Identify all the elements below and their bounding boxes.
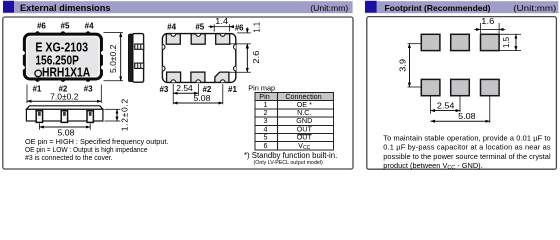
castellation bump #4 top [86,31,91,36]
svg-text:E XG-2103: E XG-2103 [35,41,88,55]
svg-text:To maintain stable operation,: To maintain stable operation, provide a … [383,133,550,142]
svg-text:(Unit:mm): (Unit:mm) [310,4,348,13]
terminal 1 [36,111,42,123]
dim 5.08 bottomview line [173,102,223,104]
svg-text:2.54: 2.54 [437,100,455,110]
header bar: Footprint [365,1,558,13]
footprint pad F [481,79,500,95]
terminal 2 [61,111,67,123]
dim 1.1 line outside arrows [246,27,248,33]
svg-text:*) Standby function built-in.: *) Standby function built-in. [244,151,337,160]
notch top #6 [220,34,225,36]
header navy square right [365,1,377,13]
footprint pad B [451,34,470,50]
pad #5 [191,34,205,44]
svg-text:#4: #4 [85,22,94,31]
svg-text:#3 is connected to the cover.: #3 is connected to the cover. [25,153,113,162]
dim 5.0 line [120,33,122,81]
dim 1.1 ext top [237,32,251,34]
table row lines [255,101,334,142]
svg-text:HRH1X1A: HRH1X1A [42,66,90,80]
castellation bump #3 bottom [86,77,91,82]
header bar: External dimensions [3,1,353,13]
svg-text:#6: #6 [37,22,46,31]
svg-text:6: 6 [264,141,268,150]
fp dim 3.9 ext [408,43,422,45]
footprint pad C [481,34,500,50]
side body outline [133,34,144,83]
pad #6 [216,34,230,44]
svg-text:1.1: 1.1 [252,21,262,32]
dim 1.4 ticks [213,24,215,31]
svg-text:#1: #1 [32,84,41,93]
terminal 3 [87,111,93,123]
svg-text:#3: #3 [84,84,93,93]
castellation bump #1 bottom [35,77,40,82]
svg-text:#6: #6 [235,23,244,32]
dim 7.0 extension right [100,85,102,104]
dim 2.6 line [246,44,248,72]
dim 1.2 ext bottom [105,120,121,122]
header navy square left [3,1,14,13]
svg-text:1.2±0.2: 1.2±0.2 [119,98,129,131]
fp dim 1.6 ticks [480,23,482,34]
notch side left upper [163,45,165,50]
castellation bump #6 top [35,31,40,36]
svg-text:Footprint (Recommended): Footprint (Recommended) [385,3,491,13]
cover bar (lid seen from side) [128,34,133,82]
dim 5.0 extension bottom [104,80,124,82]
side notch right upper [101,51,105,55]
svg-text:#5: #5 [195,22,204,31]
fp dim 1.5 line outside arrows [515,34,517,50]
left content box [3,17,353,169]
package inner white ring [27,37,99,77]
fp dim 1.5 ext [500,33,522,35]
side pad cluster upper [135,44,144,49]
fp dim 3.9 line [408,44,410,87]
dim 1.4 line outside arrows [208,26,214,28]
svg-text:#3: #3 [159,85,168,94]
svg-text:7.0±0.2: 7.0±0.2 [50,91,79,101]
side body [26,109,103,121]
package body top view [24,34,101,79]
dim 7.0 line [27,100,101,102]
svg-text:3.9: 3.9 [398,58,408,71]
svg-text:(Unit:mm): (Unit:mm) [513,4,556,13]
side pad cluster lower [135,63,144,68]
notch top #4 [171,34,176,36]
table column divider [277,93,279,151]
fp dim 2.54 line [431,110,460,112]
dim 1.2 line [116,109,118,121]
svg-text:(Only LV-PECL output model): (Only LV-PECL output model) [254,160,323,166]
side notch left lower [21,65,25,69]
svg-text:5.08: 5.08 [58,127,75,137]
dim 5.0 extension top [104,32,124,34]
svg-text:#5: #5 [61,22,70,31]
fp dim 2.54 ext [430,96,432,114]
dim 1.1 ext bottom [230,43,251,45]
pad #4 [166,34,180,44]
side lid trapezoid [26,106,103,110]
castellation bump #5 top [61,31,66,36]
pad #3 [167,72,181,82]
svg-text:1.5: 1.5 [501,37,511,48]
svg-text:2.6: 2.6 [251,50,261,63]
dim 5.08 side ext left [38,123,40,130]
svg-text:#4: #4 [167,22,176,31]
pad #2 [191,72,205,82]
table outline [255,93,334,151]
dim 7.0 extension left [26,85,28,104]
dim 2.54 line [173,92,198,94]
castellation bump #2 bottom [61,77,66,82]
notch bottom #2 [196,80,201,82]
notch side right lower [233,66,235,71]
footprint pad E [451,79,470,95]
svg-text:0.1 µF by-pass capacitor at a: 0.1 µF by-pass capacitor at a location a… [383,143,551,152]
side notch right lower [101,65,105,69]
right content box [367,17,557,170]
notch top #5 [196,34,201,36]
fp dim 5.08 ext [489,96,491,123]
footprint pad D [421,79,440,95]
svg-text:5.08: 5.08 [458,111,476,121]
svg-text:5.08: 5.08 [194,93,211,103]
svg-text:1.6: 1.6 [481,16,494,26]
pad #1 chamfered [215,72,229,82]
pin1 mark circle [35,70,42,77]
dim 5.08 side ext right [89,123,91,130]
svg-text:possible to the power source t: possible to the power source terminal of… [383,152,551,161]
table header background [255,93,334,101]
notch side right upper [233,45,235,50]
notch bottom #3 [171,80,176,82]
dim 1.2 ext top [105,108,121,110]
fp dim 1.6 line outside arrows [474,28,480,30]
side notch left upper [21,51,25,55]
dim 2.54 ext lines [172,84,174,104]
svg-text:2.54: 2.54 [176,83,193,93]
svg-text:#1: #1 [228,85,237,94]
notch side left lower [163,66,165,71]
bottom view outline [162,34,235,83]
dim 2.6 ext bottom [230,71,251,73]
footprint pad A [421,34,440,50]
svg-text:product (between VCC - GND).: product (between VCC - GND). [383,161,482,171]
fp dim 5.08 line [431,120,490,122]
svg-text:1.4: 1.4 [215,16,228,26]
svg-text:5.0±0.2: 5.0±0.2 [108,44,118,73]
dim 5.08 side line [39,126,90,128]
svg-text:External dimensions: External dimensions [20,3,111,14]
notch bottom #1 [220,80,225,82]
